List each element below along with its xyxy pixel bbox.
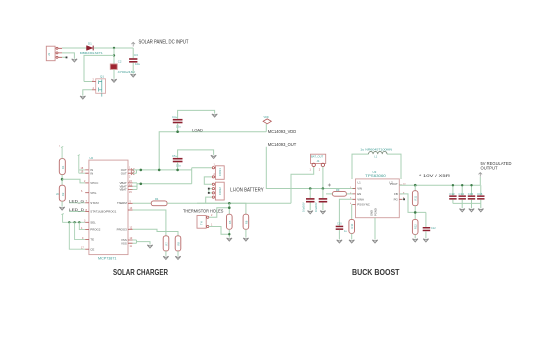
pin stub THERM pin 5 <box>128 202 133 204</box>
svg-text:C13: C13 <box>449 192 455 196</box>
wire therm riser R5 <box>228 203 230 214</box>
resistor R10 <box>349 219 355 233</box>
svg-text:PG: PG <box>394 197 399 201</box>
wire R10 to ground <box>351 233 353 239</box>
wire PG stub <box>402 198 403 200</box>
svg-text:10u: 10u <box>176 124 181 128</box>
wire C4 top to ground <box>178 110 215 119</box>
svg-text:C3: C3 <box>134 53 138 57</box>
wire branch to Q1 gate rail <box>84 55 114 81</box>
ground C12 <box>423 239 428 242</box>
ground C10 <box>337 240 342 243</box>
wire diode to input node <box>94 47 134 49</box>
svg-text:THERMISTOR HOLES: THERMISTOR HOLES <box>183 209 224 215</box>
wire MC14093_OUT riser <box>266 147 355 189</box>
svg-text:VIN: VIN <box>357 186 362 190</box>
wire CE branch <box>69 222 85 249</box>
capacitor C3 <box>129 48 140 66</box>
svg-text:GND: GND <box>370 210 374 216</box>
wire C3 to ground <box>132 63 134 74</box>
node LED_G net <box>69 199 89 203</box>
junction SEL bus a <box>68 221 70 223</box>
wire therm riser R6 <box>245 203 247 214</box>
wire node down to C2 <box>113 48 115 64</box>
wire pin12 to R8 <box>133 229 179 236</box>
capacitor C13 <box>449 185 456 203</box>
wire J1 lower pins to ground <box>62 53 74 59</box>
svg-text:U2: U2 <box>90 156 94 160</box>
ground C5 <box>211 155 216 158</box>
svg-text:CON2: CON2 <box>218 187 222 195</box>
inductor L1 loop wire <box>352 154 401 179</box>
jumper J4 battery out <box>310 154 326 171</box>
svg-text:10u: 10u <box>176 163 181 167</box>
svg-text:10u/16V: 10u/16V <box>314 202 318 212</box>
svg-text:R12: R12 <box>414 224 418 229</box>
ground C15 <box>469 209 474 212</box>
svg-text:VOUT: VOUT <box>390 182 398 186</box>
wire thermistor pin2 <box>209 208 230 218</box>
svg-text:VPG: VPG <box>90 191 97 195</box>
wire U3 GND to ground <box>374 218 376 240</box>
junction node solar rail <box>113 47 115 49</box>
capacitor C12 <box>423 212 436 238</box>
ground R10 <box>349 240 354 243</box>
wire PROG2 branch <box>79 222 85 229</box>
svg-text:C14: C14 <box>459 192 465 196</box>
wire 5V supply drop <box>479 177 481 185</box>
ground below Q1 gate2 <box>80 96 85 99</box>
junction battery therm a <box>228 202 231 205</box>
pin stubs VSS 10,11 <box>128 240 133 243</box>
svg-text:FB: FB <box>394 192 398 196</box>
junction PG dot <box>403 198 405 200</box>
svg-text:D1: D1 <box>88 41 92 45</box>
ground below C3 <box>131 74 136 77</box>
junction R5 bottom <box>228 233 230 235</box>
junction SEL bus b <box>73 221 75 223</box>
svg-text:VBAT: VBAT <box>119 188 127 192</box>
capacitor C14 <box>459 185 466 203</box>
svg-text:PROG3: PROG3 <box>117 228 128 232</box>
wire PS/SYNC to R10 <box>351 205 354 220</box>
wire divider to VPCC pin 2 <box>62 179 85 183</box>
wire LOAD riser <box>159 132 266 170</box>
svg-text:TH: TH <box>200 221 204 225</box>
wire C5 top to ground <box>178 150 214 158</box>
wire JP2 mid pins tie <box>209 189 212 193</box>
svg-text:BUCK BOOST: BUCK BOOST <box>352 267 400 277</box>
supply symbol solar input <box>131 42 135 46</box>
svg-text:PGND: PGND <box>374 208 378 216</box>
svg-text:R6: R6 <box>244 220 248 224</box>
svg-text:SEL: SEL <box>90 220 96 224</box>
resistor R9 <box>333 188 347 196</box>
ground R7 <box>163 256 168 259</box>
svg-text:R11: R11 <box>414 195 418 200</box>
svg-text:VPCC: VPCC <box>90 181 98 185</box>
svg-text:LI-ION BATTERY: LI-ION BATTERY <box>230 188 264 194</box>
wire R7 to ground <box>165 251 167 256</box>
svg-text:TPS63060: TPS63060 <box>365 174 386 178</box>
svg-text:PS/SYNC: PS/SYNC <box>357 203 370 207</box>
wire C5 bottom <box>177 162 179 170</box>
svg-text:MBR230LSFT1: MBR230LSFT1 <box>80 51 103 55</box>
junction FB node <box>414 211 417 214</box>
junction C14 top <box>461 184 463 186</box>
resistor R6 <box>243 214 249 229</box>
resistor R11 <box>412 185 418 206</box>
wire VOUT 5V line <box>399 184 480 186</box>
junction SEL bus c <box>78 221 80 223</box>
svg-text:STAT1/LBO/PROG1: STAT1/LBO/PROG1 <box>90 210 116 214</box>
svg-text:VSS: VSS <box>121 241 127 245</box>
capacitor C16 <box>477 185 484 203</box>
svg-text:CE: CE <box>90 247 94 251</box>
junction VPCC divider <box>61 178 64 181</box>
ground R5 <box>227 238 232 241</box>
svg-text:SOLAR PANEL DC INPUT: SOLAR PANEL DC INPUT <box>139 39 189 45</box>
junction C15 top <box>470 184 472 186</box>
junction C13 top <box>452 184 454 186</box>
resistor R7 <box>163 236 169 251</box>
svg-text:R1: R1 <box>61 165 65 169</box>
ground C16 <box>478 209 483 212</box>
svg-text:CON1: CON1 <box>218 168 222 176</box>
ground R6 <box>243 238 248 241</box>
svg-text:J4: J4 <box>317 159 320 163</box>
junction LOAD riser <box>158 169 161 172</box>
wire thermistor pin1 <box>209 227 230 235</box>
wire OUT net to battery <box>133 170 192 173</box>
svg-text:SOLAR CHARGER: SOLAR CHARGER <box>113 267 169 277</box>
inductor L1 <box>360 148 392 159</box>
wire VBAT net <box>133 168 213 190</box>
op-amp U2 MCP73871 body <box>89 156 128 260</box>
wire gate2 to ground <box>83 90 92 96</box>
wire JP1 pin2 to JP2 pin1 <box>204 177 212 184</box>
svg-text:J1: J1 <box>47 53 51 57</box>
svg-text:10u: 10u <box>135 62 140 66</box>
resistor R8 <box>175 236 181 251</box>
svg-text:VDD: VDD <box>264 116 269 119</box>
capacitor C10 <box>336 223 348 240</box>
svg-text:ThERM: ThERM <box>117 201 127 205</box>
svg-text:Q1: Q1 <box>100 75 104 79</box>
wire R1 to R2 <box>61 175 63 186</box>
junction thermistor node <box>228 206 231 209</box>
wire THERM to R4 <box>133 202 152 204</box>
wire JP2 pin4 to therm line <box>206 197 212 203</box>
connector battery JP2 (4-pin) <box>212 182 224 200</box>
svg-text:C10: C10 <box>337 223 342 226</box>
wire EN <box>326 193 353 195</box>
wire J4 pin2 to VIN line <box>322 167 324 189</box>
ground U3 <box>372 240 377 243</box>
ground below C2 <box>111 79 116 82</box>
svg-text:IN: IN <box>90 171 93 175</box>
wire C2 to ground <box>113 69 115 78</box>
pin stub Q1 gate2 pin 4 <box>92 89 96 91</box>
svg-text:C12: C12 <box>431 227 436 230</box>
junction VOUT R11 <box>414 184 417 187</box>
wire THERM line <box>167 202 246 204</box>
junction VIN C9 <box>322 187 325 190</box>
svg-text:STAT2: STAT2 <box>90 201 99 205</box>
svg-text:VINA: VINA <box>357 197 364 201</box>
junction J1 ground node <box>66 57 68 59</box>
svg-text:LOAD: LOAD <box>192 127 203 132</box>
U2 right pin names <box>117 168 128 245</box>
pin stubs VBAT 23,14,15 <box>128 180 133 194</box>
capacitor C5 <box>172 154 183 168</box>
svg-text:10u/16V: 10u/16V <box>302 202 306 212</box>
U3 pin names <box>357 181 393 207</box>
svg-text:R9: R9 <box>336 188 340 192</box>
svg-text:* 10V / X5R: * 10V / X5R <box>419 173 450 178</box>
junction node C2 branch <box>113 54 115 56</box>
U2 left pin names <box>90 168 116 251</box>
resistor R5 <box>227 214 233 229</box>
wire FB node <box>399 194 426 220</box>
wire R5 to ground <box>228 229 230 237</box>
capacitor C15 <box>468 185 475 203</box>
svg-text:TE: TE <box>90 238 94 242</box>
transistor Q1 <box>96 75 106 97</box>
svg-text:R5: R5 <box>228 220 232 224</box>
capacitor C9 <box>314 189 327 213</box>
wire VSS to ground <box>133 240 151 245</box>
resistor R2 <box>59 185 65 201</box>
connector thermistor JP3 <box>197 214 213 228</box>
wire R2 to ground <box>61 201 63 206</box>
net stub above R1 <box>61 146 63 158</box>
svg-text:OUT: OUT <box>121 171 127 175</box>
svg-text:C5+: C5+ <box>172 154 178 158</box>
svg-text:EN: EN <box>357 192 361 196</box>
capacitor C2 (marked box) <box>110 60 136 74</box>
wire R8 to ground <box>177 251 179 256</box>
ground R8 <box>175 256 180 259</box>
wire IN pins rail <box>78 155 86 174</box>
svg-text:C4+: C4+ <box>172 115 178 119</box>
pin stub Q1 gate1 pin 2 <box>92 81 96 83</box>
resistor R1 <box>59 159 65 175</box>
wire VINA to C10 <box>339 199 352 225</box>
ground VSS <box>147 245 152 248</box>
wire C4 bottom to LOAD <box>177 123 179 131</box>
connector J1 solar input <box>46 46 62 61</box>
svg-text:C2: C2 <box>118 60 122 64</box>
pin stub PROG3 pin 12 <box>128 228 133 230</box>
diode D1 MBR230LSFT1 <box>80 41 103 55</box>
wire R6 to ground <box>245 229 247 237</box>
capacitor C8 <box>302 189 315 213</box>
junction C4 LOAD <box>176 130 179 133</box>
capacitor C4 <box>172 115 183 129</box>
svg-text:R7: R7 <box>165 242 169 246</box>
wire gate1 <box>84 81 92 83</box>
node LED_D net <box>69 208 89 212</box>
svg-text:OUTPUT: OUTPUT <box>481 165 498 170</box>
ground below R2 <box>59 207 64 210</box>
wire J1 pin1 to diode <box>62 47 87 49</box>
svg-text:R8: R8 <box>177 242 181 246</box>
U3 pin numbers <box>350 183 406 205</box>
svg-text:1u NR6045T100MN: 1u NR6045T100MN <box>360 148 392 152</box>
svg-text:R4: R4 <box>155 197 159 201</box>
svg-text:MC14093_OUT: MC14093_OUT <box>268 142 297 147</box>
supply flag MC14093_VDD diamond <box>263 116 271 132</box>
svg-text:R10: R10 <box>350 223 354 228</box>
ground R12 <box>413 239 418 242</box>
wire TE branch <box>75 222 86 239</box>
svg-text:L1: L1 <box>358 181 362 185</box>
ground below J1 <box>72 59 77 62</box>
junction OUT node <box>140 169 143 172</box>
junction VBAT node <box>140 183 143 186</box>
resistor R12 <box>412 219 418 234</box>
svg-text:R2: R2 <box>61 192 65 196</box>
junction JP2 pin3 dot <box>208 192 210 194</box>
svg-text:C15: C15 <box>468 192 474 196</box>
pin stubs OUT 1,2 <box>128 167 134 179</box>
svg-text:LED_D: LED_D <box>69 208 84 212</box>
svg-text:C16: C16 <box>477 192 483 196</box>
wire SEL bus <box>61 214 85 223</box>
junction JP2 pin2 dot <box>208 188 210 190</box>
ground C4 <box>212 114 217 117</box>
pin stub STAT1 pin 13 <box>128 209 133 211</box>
supply symbol 5V <box>479 173 483 177</box>
svg-text:MCP73871: MCP73871 <box>98 256 116 260</box>
wire battery plus line to J4 <box>197 167 314 204</box>
ground C14 <box>460 209 465 212</box>
ground C9 <box>320 211 325 214</box>
wire output cap bottoms tie <box>453 203 481 208</box>
wire VPG stub pin 6 <box>85 192 89 194</box>
svg-text:PROG2: PROG2 <box>90 228 101 232</box>
wire pin13 to R7 <box>133 210 166 236</box>
svg-text:LED_G: LED_G <box>69 199 84 203</box>
junction C5 node <box>176 169 179 172</box>
ground C8 <box>308 211 313 214</box>
connector battery JP1 (2-pin) <box>212 164 224 180</box>
op-amp U3 TPS63060 body <box>356 170 400 218</box>
resistor R4 <box>151 197 167 206</box>
wire R12 to ground <box>414 234 416 238</box>
junction VIN C8 <box>309 187 312 190</box>
svg-text:BAT_OUT: BAT_OUT <box>311 154 324 158</box>
U3 pin stubs <box>352 176 402 221</box>
junction plus mark <box>328 184 331 187</box>
svg-text:MC14093_VDD: MC14093_VDD <box>268 129 297 134</box>
